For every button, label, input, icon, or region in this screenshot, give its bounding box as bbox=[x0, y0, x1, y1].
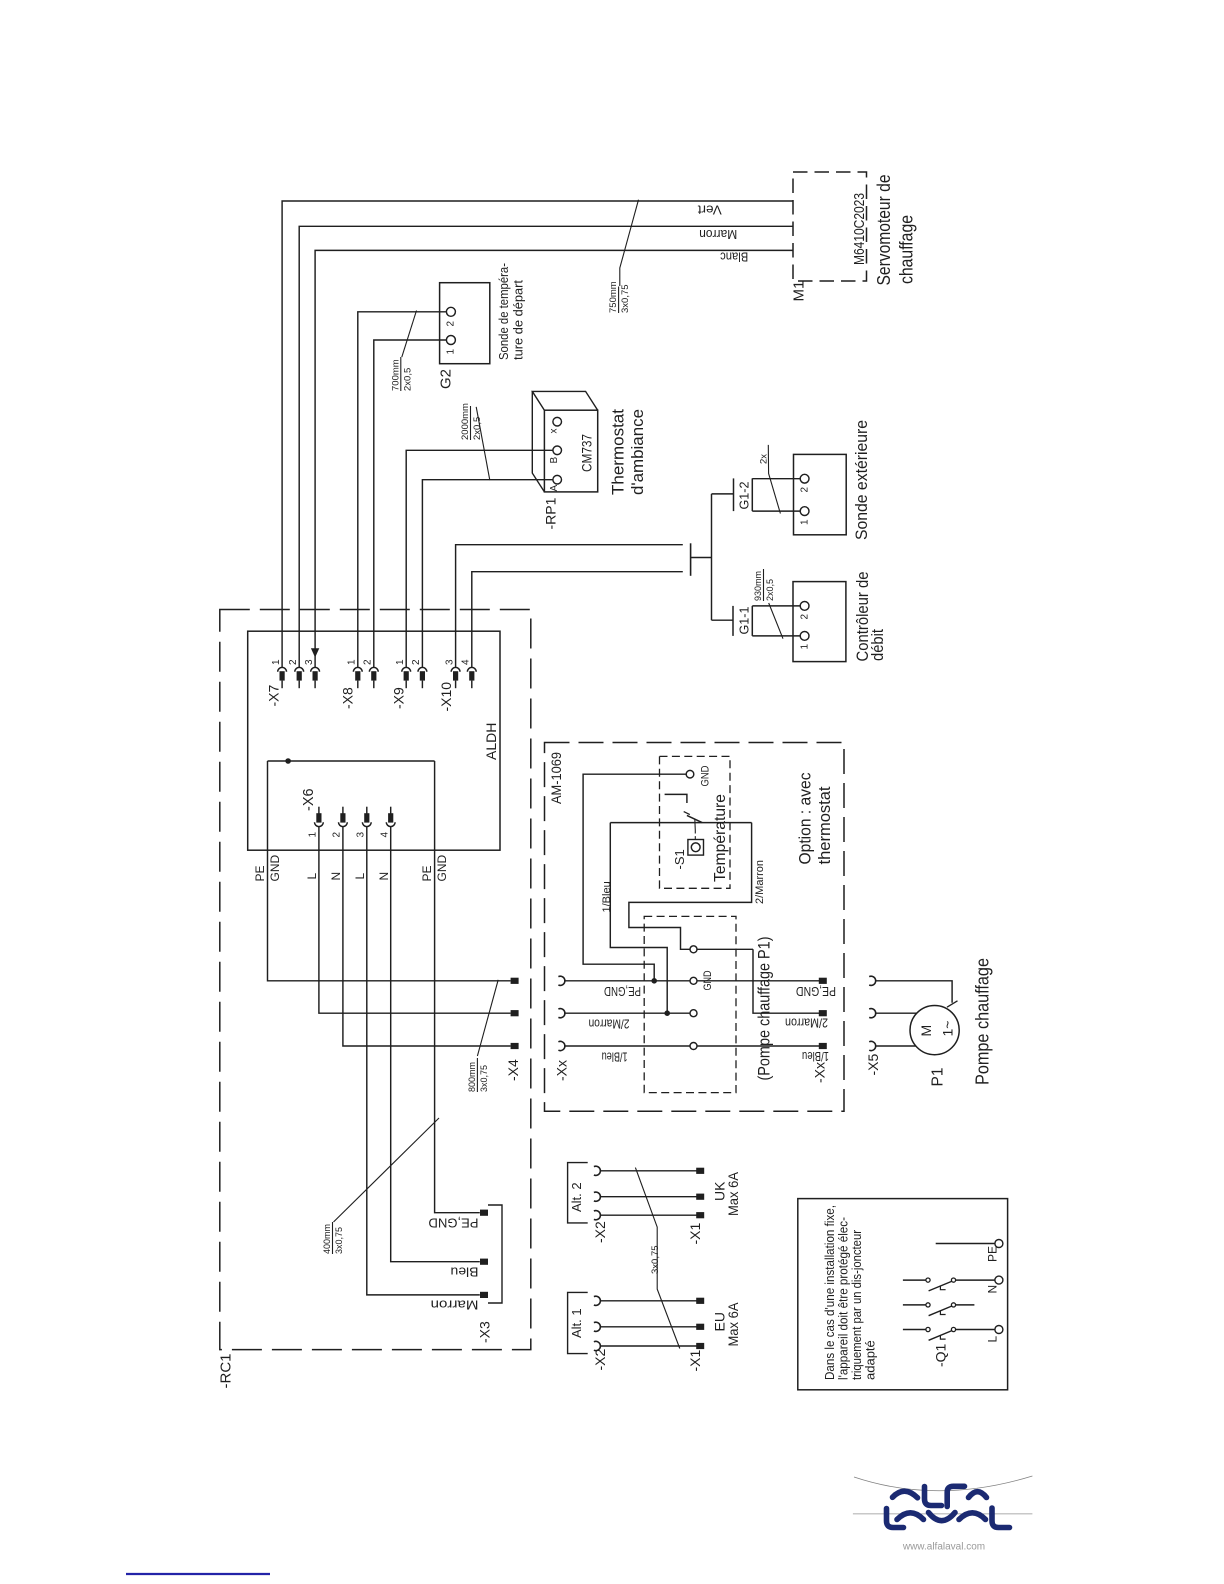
svg-text:-X5: -X5 bbox=[865, 1054, 881, 1076]
svg-text:-X8: -X8 bbox=[340, 687, 356, 709]
svg-text:N: N bbox=[377, 872, 391, 881]
svg-text:Option : avec: Option : avec bbox=[796, 772, 815, 864]
svg-text:Servomoteur de: Servomoteur de bbox=[874, 175, 894, 286]
svg-text:G1-2: G1-2 bbox=[737, 482, 752, 510]
svg-text:A: A bbox=[549, 485, 560, 492]
svg-text:-X2: -X2 bbox=[592, 1221, 608, 1243]
svg-text:Sonde extérieure: Sonde extérieure bbox=[853, 420, 871, 540]
svg-text:G2: G2 bbox=[438, 369, 455, 389]
svg-text:-X1: -X1 bbox=[687, 1223, 703, 1245]
svg-text:1~: 1~ bbox=[940, 1021, 956, 1037]
svg-text:PE: PE bbox=[986, 1246, 1000, 1262]
svg-text:M1: M1 bbox=[791, 281, 808, 302]
svg-text:GND: GND bbox=[268, 855, 282, 882]
svg-text:800mm: 800mm bbox=[467, 1062, 477, 1092]
svg-text:Vert: Vert bbox=[697, 203, 722, 217]
svg-text:2: 2 bbox=[800, 487, 811, 493]
svg-text:-S1: -S1 bbox=[672, 849, 687, 869]
svg-text:Bleu: Bleu bbox=[451, 1265, 479, 1280]
svg-text:Thermostat: Thermostat bbox=[609, 409, 628, 495]
svg-text:Marron: Marron bbox=[431, 1298, 479, 1313]
svg-text:-Xx: -Xx bbox=[812, 1062, 828, 1083]
svg-text:B: B bbox=[549, 457, 560, 464]
svg-text:-X10: -X10 bbox=[438, 682, 454, 712]
svg-text:2: 2 bbox=[363, 659, 374, 665]
svg-text:ALDH: ALDH bbox=[483, 723, 499, 760]
svg-text:2x0,5: 2x0,5 bbox=[402, 368, 413, 391]
svg-text:4: 4 bbox=[380, 832, 391, 838]
svg-text:2x0,5: 2x0,5 bbox=[765, 579, 775, 601]
svg-text:N: N bbox=[986, 1285, 1000, 1294]
svg-text:PE,GND: PE,GND bbox=[429, 1216, 479, 1231]
svg-text:PE,GND: PE,GND bbox=[604, 984, 641, 998]
svg-text:1: 1 bbox=[446, 349, 457, 355]
svg-text:2: 2 bbox=[800, 614, 811, 620]
svg-text:1: 1 bbox=[800, 519, 811, 525]
svg-text:-RP1: -RP1 bbox=[543, 497, 559, 529]
svg-text:-Xx: -Xx bbox=[554, 1060, 570, 1081]
svg-text:3x0,75: 3x0,75 bbox=[650, 1245, 661, 1274]
svg-text:2: 2 bbox=[411, 659, 422, 665]
svg-text:Max 6A: Max 6A bbox=[725, 1171, 741, 1216]
svg-text:débit: débit bbox=[869, 629, 887, 661]
svg-text:1/Bleu: 1/Bleu bbox=[602, 1050, 628, 1064]
svg-text:-X3: -X3 bbox=[477, 1321, 493, 1343]
svg-text:-X2: -X2 bbox=[592, 1349, 608, 1371]
svg-text:PE: PE bbox=[253, 865, 267, 881]
svg-text:4: 4 bbox=[461, 659, 472, 665]
svg-text:1: 1 bbox=[800, 644, 811, 650]
svg-text:GND: GND bbox=[700, 765, 712, 786]
svg-text:M6410C2023: M6410C2023 bbox=[851, 193, 868, 265]
svg-text:PE: PE bbox=[420, 865, 434, 881]
svg-text:700mm: 700mm bbox=[390, 359, 401, 391]
svg-text:Pompe chauffage: Pompe chauffage bbox=[973, 958, 993, 1085]
svg-text:G1-1: G1-1 bbox=[737, 607, 752, 635]
svg-text:1: 1 bbox=[347, 659, 358, 665]
svg-text:2/Marron: 2/Marron bbox=[588, 1017, 629, 1031]
svg-text:3: 3 bbox=[356, 832, 367, 838]
svg-text:1: 1 bbox=[271, 659, 282, 665]
svg-text:-Q1: -Q1 bbox=[933, 1343, 949, 1367]
svg-text:x: x bbox=[549, 429, 560, 434]
svg-text:1/Bleu: 1/Bleu bbox=[601, 881, 613, 912]
svg-text:2x: 2x bbox=[759, 454, 770, 464]
svg-text:GND: GND bbox=[702, 970, 714, 990]
svg-text:2x0,5: 2x0,5 bbox=[472, 417, 483, 440]
svg-text:1: 1 bbox=[308, 832, 319, 838]
svg-text:CM737: CM737 bbox=[580, 434, 595, 472]
svg-text:ture de départ: ture de départ bbox=[511, 280, 526, 360]
svg-text:-X6: -X6 bbox=[301, 788, 317, 811]
svg-text:3: 3 bbox=[304, 659, 315, 665]
svg-text:-X7: -X7 bbox=[266, 685, 282, 707]
svg-text:AM-1069: AM-1069 bbox=[548, 752, 564, 804]
svg-text:2000mm: 2000mm bbox=[460, 403, 471, 440]
svg-text:2: 2 bbox=[332, 832, 343, 838]
svg-text:Marron: Marron bbox=[699, 227, 737, 241]
svg-text:P1: P1 bbox=[930, 1068, 947, 1087]
svg-text:thermostat: thermostat bbox=[815, 786, 834, 864]
svg-text:930mm: 930mm bbox=[753, 571, 763, 601]
svg-text:(Pompe chauffage P1): (Pompe chauffage P1) bbox=[755, 937, 774, 1081]
svg-text:-X4: -X4 bbox=[505, 1059, 521, 1081]
svg-text:2/Marron: 2/Marron bbox=[785, 1016, 828, 1030]
svg-text:Blanc: Blanc bbox=[720, 250, 748, 264]
svg-text:400mm: 400mm bbox=[322, 1224, 332, 1254]
svg-text:GND: GND bbox=[435, 855, 449, 882]
svg-text:3: 3 bbox=[444, 659, 455, 665]
svg-text:3x0,75: 3x0,75 bbox=[479, 1065, 489, 1092]
svg-text:Sonde de tempéra-: Sonde de tempéra- bbox=[496, 263, 511, 360]
svg-text:Max 6A: Max 6A bbox=[725, 1302, 741, 1347]
svg-text:M: M bbox=[918, 1025, 934, 1037]
svg-text:2: 2 bbox=[288, 659, 299, 665]
svg-text:1/Bleu: 1/Bleu bbox=[802, 1049, 829, 1063]
svg-text:L: L bbox=[305, 873, 319, 880]
svg-text:1: 1 bbox=[395, 659, 406, 665]
svg-text:2/Marron: 2/Marron bbox=[754, 860, 766, 904]
svg-text:PE,GND: PE,GND bbox=[796, 984, 836, 998]
svg-text:-RC1: -RC1 bbox=[218, 1353, 235, 1388]
svg-text:N: N bbox=[329, 872, 343, 881]
svg-text:chauffage: chauffage bbox=[897, 215, 917, 284]
svg-text:www.alfalaval.com: www.alfalaval.com bbox=[902, 1542, 985, 1553]
svg-text:L: L bbox=[986, 1336, 1000, 1343]
svg-text:-X9: -X9 bbox=[391, 687, 407, 709]
svg-text:d'ambiance: d'ambiance bbox=[628, 409, 647, 495]
svg-text:3x0,75: 3x0,75 bbox=[334, 1227, 344, 1254]
svg-text:Température: Température bbox=[712, 794, 729, 882]
svg-text:2: 2 bbox=[446, 321, 457, 327]
svg-text:750mm: 750mm bbox=[608, 281, 619, 313]
svg-text:Alt. 1: Alt. 1 bbox=[569, 1308, 584, 1338]
svg-text:adapté: adapté bbox=[863, 1340, 878, 1380]
svg-text:3x0,75: 3x0,75 bbox=[620, 284, 631, 313]
svg-text:Alt. 2: Alt. 2 bbox=[569, 1182, 584, 1212]
svg-text:L: L bbox=[353, 873, 367, 880]
svg-text:-X1: -X1 bbox=[687, 1350, 703, 1372]
